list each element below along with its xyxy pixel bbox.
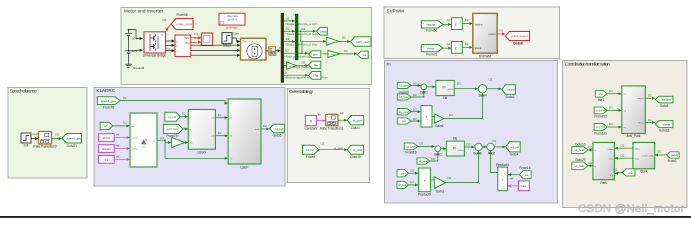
wire Step1 to PMSM Tm [232, 38, 240, 42]
product Product4 [496, 163, 509, 191]
svg-text:the: the [599, 92, 604, 96]
svg-text:D2: D2 [410, 180, 414, 184]
svg-text:D2: D2 [621, 154, 625, 158]
svg-text:Vabc: Vabc [185, 38, 191, 40]
svg-text:D2: D2 [457, 82, 461, 86]
svg-text:D2: D2 [55, 133, 59, 137]
svg-text:D2: D2 [420, 142, 424, 146]
wire fun output junction [157, 136, 166, 141]
svg-text:From35: From35 [177, 13, 188, 17]
from tag we (From16 mirrored) [520, 166, 532, 179]
svg-text:LSEF: LSEF [241, 165, 249, 169]
svg-text:ud_ref: ud_ref [596, 109, 605, 113]
wire LESO z1 to LSEF [215, 113, 227, 118]
svg-text:D1: D1 [500, 29, 504, 33]
svg-text:Rate Transition1: Rate Transition1 [320, 126, 343, 130]
svg-text:Inf: Inf [116, 133, 119, 137]
svg-text:Product6: Product6 [418, 193, 431, 197]
wire battery mid to bridge [129, 49, 143, 52]
svg-text:z: z [455, 45, 457, 50]
svg-text:D2: D2 [263, 124, 267, 128]
svg-text:D2: D2 [286, 37, 290, 41]
svg-text:SVPWM: SVPWM [479, 54, 491, 58]
wire LESO z2 to LSEF [215, 131, 227, 136]
svg-text:uq_ref: uq_ref [596, 125, 605, 129]
svg-text:iq_ref: iq_ref [275, 127, 283, 131]
svg-text:id_real: id_real [398, 183, 407, 187]
goto tag [iabc] [316, 27, 327, 35]
wire Anti_Park Vbeta out [645, 118, 655, 123]
wire Sum3 to uq_ref [494, 146, 505, 148]
svg-text:50 V: 50 V [132, 49, 138, 53]
subsystem SVPWM [473, 13, 497, 58]
wire Flux to Product4 [508, 185, 519, 187]
svg-text:iq_real: iq_real [399, 110, 408, 114]
svg-text:KLADRC: KLADRC [96, 88, 115, 93]
svg-text:Current strategy: Current strategy [289, 89, 314, 94]
svg-text:Vbeta: Vbeta [662, 122, 670, 126]
svg-text:From113: From113 [594, 115, 607, 119]
wire we to Product2 [411, 120, 421, 122]
goto tag Valpha (Goto6) [655, 96, 673, 108]
svg-text:Xiq: Xiq [453, 136, 458, 140]
svg-text:Valpha: Valpha [426, 23, 435, 27]
rate transition RT3 [269, 47, 276, 55]
svg-text:D1: D1 [194, 36, 198, 40]
wire we to Product6 [408, 172, 418, 174]
from tag iq_real (d decoupling) [397, 108, 417, 115]
svg-text:Goto18: Goto18 [350, 155, 361, 159]
ground Ground2 [125, 62, 132, 67]
svg-text:Goto8: Goto8 [513, 41, 522, 45]
svg-text:D2: D2 [413, 117, 417, 121]
rate transition Rate Transition1 [320, 114, 343, 130]
wire rate transition1 to id_give [338, 111, 347, 120]
goto tag iq_give (Goto18) [347, 145, 363, 159]
svg-text:Inf: Inf [510, 177, 513, 181]
unit delay Z1 [452, 18, 463, 30]
IGBT bridge U1 Universal Bridge [143, 32, 167, 58]
svg-text:id_give: id_give [353, 119, 363, 123]
bus row is_b wire [284, 27, 318, 37]
svg-text:Goto10: Goto10 [575, 143, 586, 147]
svg-text:D2: D2 [467, 143, 471, 147]
svg-text:D2: D2 [283, 71, 287, 75]
svg-text:0.8: 0.8 [24, 144, 29, 148]
svg-text:uiPout: uiPout [457, 149, 464, 152]
goto tag pulse_export (Goto8) [505, 31, 529, 45]
sum Sum2 [434, 146, 443, 157]
svg-text:D2: D2 [609, 89, 613, 93]
bus row Te wire [283, 71, 328, 80]
svg-text:D2: D2 [342, 35, 346, 39]
measurement block Three-Phase V-I Measurement [175, 35, 191, 57]
svg-text:uiPout: uiPout [447, 88, 454, 91]
svg-text:D2: D2 [160, 136, 164, 140]
area box: Pi current loop [385, 61, 558, 204]
from tag we (d decoupling) [397, 117, 417, 124]
svg-text:From1: From1 [668, 159, 677, 163]
goto tag speed_give (Goto21) [62, 134, 82, 149]
from tag iq_ref (to LESO) [165, 112, 186, 122]
svg-text:Vbeta: Vbeta [475, 46, 482, 50]
constant wcmin [98, 133, 119, 142]
step source Step1 [222, 33, 232, 48]
svg-text:D2: D2 [218, 113, 222, 117]
wire LSEF output to iq_ref goto [261, 124, 269, 129]
goto tag the [309, 61, 321, 68]
wire Sum2 to PI q [441, 148, 446, 150]
wire Gain6 up into Sum4 [444, 93, 483, 118]
bottom rule line [0, 216, 691, 218]
svg-text:Cont: Cont [233, 32, 239, 36]
wire fun to gain Gain7 [165, 140, 171, 142]
svg-text:Goto5: Goto5 [273, 134, 282, 138]
wire wcmax to fun [114, 148, 129, 150]
wire gain G2 to we [340, 53, 357, 55]
goto tag id_give (Goto1) [347, 116, 363, 130]
wire RT3 to bus selector [276, 50, 281, 52]
svg-text:Clark: Clark [640, 170, 648, 174]
svg-text:D2: D2 [609, 106, 613, 110]
from tag speed_give (From76) [97, 97, 120, 110]
wire the to Park theta [615, 172, 623, 173]
svg-text:iq_ref: iq_ref [307, 148, 315, 152]
wire PI q to Sum5 [464, 143, 474, 147]
svg-text:the: the [628, 171, 633, 175]
wire Product2 to Gain6 [432, 115, 434, 117]
svg-text:From19: From19 [406, 151, 417, 155]
from tag id_real (q decoupling) [397, 180, 414, 189]
svg-text:From56: From56 [426, 29, 437, 33]
goto tag wm [309, 51, 321, 58]
constant Flux [510, 177, 529, 191]
wire ud_ref to Anti_Park [607, 109, 621, 111]
gain G3 on theta row [287, 60, 306, 69]
wire iq_ref to iq_give with label [319, 142, 347, 151]
svg-text:D2: D2 [123, 121, 127, 125]
from tag the (theta to Park mirrored) [614, 168, 636, 176]
svg-text:Valpha: Valpha [475, 22, 483, 26]
goto tag Vbeta (Goto12) [655, 121, 673, 133]
svg-text:0.1: 0.1 [104, 158, 108, 162]
subsystem Clark (mirrored) [633, 142, 655, 173]
svg-text:Inf: Inf [318, 113, 321, 117]
svg-text:Goto12: Goto12 [659, 129, 670, 133]
area box: Motor and Inverter [121, 8, 372, 85]
MATLAB function block fun [130, 113, 157, 167]
svg-text:D2: D2 [182, 112, 186, 116]
svg-text:iq_ref: iq_ref [168, 115, 176, 119]
svg-text:uq_ref: uq_ref [511, 145, 520, 149]
svg-text:wcmin: wcmin [102, 136, 110, 140]
from tag iq_real (q loop) [417, 157, 435, 164]
svg-text:[iabc]: [iabc] [320, 29, 327, 33]
svg-text:D2: D2 [621, 144, 625, 148]
svg-text:Valpha: Valpha [662, 98, 671, 102]
svg-text:D2: D2 [218, 131, 222, 135]
bus row thetam wire [283, 60, 318, 69]
wires bridge to measurement a b c [166, 41, 175, 51]
wire battery top to bridge [129, 30, 143, 39]
step source speed step [21, 133, 31, 148]
goto tag iq_ref (Goto5) [270, 124, 285, 137]
wire gain G1 to wm_real [338, 41, 350, 43]
svg-text:Motor and Inverter: Motor and Inverter [124, 8, 163, 13]
svg-text:From16: From16 [520, 166, 531, 170]
scope Scope [202, 33, 213, 46]
unit delay Z2 [452, 42, 463, 54]
from tag the [595, 89, 613, 102]
svg-text:D2: D2 [344, 49, 348, 53]
svg-text:Valpha: Valpha [637, 98, 644, 100]
powergui block Discrete 1e-06 s [219, 13, 245, 29]
svg-text:Ground2: Ground2 [133, 66, 145, 70]
subsystem Park (mirrored) [593, 142, 615, 184]
svg-text:D2: D2 [301, 60, 305, 64]
svg-text:D2: D2 [431, 157, 435, 161]
svg-text:Park: Park [600, 181, 607, 185]
wire Anti_Park Valpha out [645, 94, 655, 99]
junction battery mid [128, 50, 130, 52]
svg-text:Inf: Inf [116, 154, 119, 158]
wire we From16 to Product4 [508, 174, 520, 176]
svg-text:Goto29: Goto29 [575, 158, 586, 162]
from tag uq_ref (From121) [594, 122, 613, 135]
svg-text:iqref: iqref [255, 128, 260, 131]
wire Clark beta to Park [615, 154, 633, 159]
svg-text:[Te]: [Te] [313, 74, 318, 78]
svg-text:Xid: Xid [443, 96, 448, 100]
wires measurement abc to PMSM [191, 45, 240, 55]
svg-text:Inf: Inf [116, 144, 119, 148]
svg-text:fun: fun [142, 147, 145, 149]
mux output wire to iabc goto [298, 27, 316, 42]
wire 0.1 to fun [114, 158, 129, 160]
svg-text:D2: D2 [465, 42, 469, 46]
wire unit delay Z1 to SVPWM [462, 23, 472, 25]
svg-text:D2: D2 [447, 42, 451, 46]
area box: Coordination transformation [563, 61, 688, 208]
svg-text:Vbeta: Vbeta [427, 46, 435, 50]
junction battery top [128, 29, 130, 31]
gain G2 (pole pairs) [323, 49, 349, 57]
svg-text:iq_real: iq_real [419, 159, 428, 163]
svg-text:Flux: Flux [521, 184, 527, 188]
product Product6 [418, 168, 431, 197]
from tag wb [100, 122, 113, 129]
wire uq_ref to Anti_Park [607, 126, 621, 128]
svg-text:wcmax: wcmax [132, 148, 140, 150]
from tag Valpha (From56) [421, 21, 443, 33]
svg-text:iq_give: iq_give [353, 148, 363, 152]
wire unit delay Z2 to SVPWM [462, 46, 472, 48]
svg-text:id_real: id_real [399, 95, 408, 99]
subsystem LSEF [228, 99, 261, 169]
sum Sum5 [475, 143, 482, 150]
wire PI d to Sum4 [454, 82, 478, 89]
wire Gain7 to LESO [185, 142, 188, 144]
goto tag ud_ref (Goto2) [502, 85, 516, 99]
svg-text:Goto21: Goto21 [67, 144, 78, 148]
svg-text:Product4: Product4 [496, 163, 509, 167]
bus row is_a wire [284, 16, 318, 26]
DC source V1 (battery) [125, 30, 132, 51]
svg-text:[wm_real]: [wm_real] [356, 40, 369, 44]
wire Sum5 to Sum3 [482, 146, 486, 148]
svg-text:D2: D2 [413, 108, 417, 112]
svg-text:Constant: Constant [305, 126, 318, 130]
svg-text:iq_give: iq_give [334, 146, 343, 150]
svg-text:alpha: alpha [608, 149, 614, 151]
wire Sum1 to PI d [427, 86, 436, 88]
wire gate from pulse_export down to bridge [167, 24, 171, 31]
from tag iq_give (From19) [404, 142, 423, 155]
from tag we (q decoupling) [397, 168, 414, 177]
svg-text:Rate Transition2: Rate Transition2 [33, 145, 56, 149]
DC source V2 (battery) [125, 51, 132, 62]
wire iq_ref to LESO [180, 116, 188, 118]
svg-text:1e-06 s.: 1e-06 s. [227, 18, 238, 22]
gain Gain6 [435, 113, 454, 128]
svg-text:id_real: id_real [575, 148, 584, 152]
svg-text:speed_give: speed_give [67, 137, 83, 141]
svg-text:Gain6: Gain6 [435, 124, 444, 128]
area box: Speed reference [8, 88, 87, 179]
wire Park d to id_real [588, 146, 593, 151]
wire Park q to iq_real [588, 161, 593, 166]
wire the to Anti_Park [607, 93, 621, 95]
svg-text:id_give: id_give [399, 84, 409, 88]
svg-text:From72: From72 [426, 53, 437, 57]
wire id_real to Product6 [408, 184, 418, 186]
wire iq_give to Sum2 [418, 145, 435, 147]
svg-text:From76: From76 [103, 105, 114, 109]
svg-text:ud_ref: ud_ref [507, 88, 516, 92]
goto tag Te [309, 72, 321, 80]
wire Clark alpha to Park [615, 144, 633, 149]
from tag ud_ref (From113) [594, 106, 613, 119]
subsystem Anti_Park [622, 86, 646, 138]
wire speed_give to LSEF input [120, 96, 228, 103]
svg-text:pulse_export: pulse_export [511, 34, 528, 38]
svg-text:D2: D2 [658, 149, 662, 153]
wire wcmin to fun [114, 137, 129, 139]
svg-text:D2: D2 [340, 111, 344, 115]
svg-text:speed_give: speed_give [101, 99, 117, 103]
svg-text:D2: D2 [493, 139, 497, 143]
svg-text:D2: D2 [285, 49, 289, 53]
wire Gain1 up into Sum5 [445, 151, 478, 183]
subsystem LESO [188, 110, 215, 155]
wire id_give to Sum1 [411, 84, 421, 86]
wire wb to fun [113, 121, 130, 126]
svg-text:D2: D2 [465, 18, 469, 22]
goto tag id_real (Goto10 mirrored) [572, 143, 588, 154]
svg-text:wb: wb [104, 124, 108, 128]
svg-text:CSDN @Neil_motor: CSDN @Neil_motor [578, 203, 685, 215]
svg-text:<Electromagnetic torque Te (N*: <Electromagnetic torque Te (N*m)> [284, 76, 328, 80]
svg-text:0: 0 [310, 120, 312, 124]
svg-text:Universal Bridge: Universal Bridge [143, 54, 167, 58]
sum Sum3 [487, 139, 497, 155]
svg-text:we: we [401, 171, 405, 175]
svg-text:Vbeta: Vbeta [638, 122, 644, 125]
wire PMSM m output to rate transition [266, 50, 268, 52]
wire constant to rate transition1 [316, 120, 325, 122]
svg-text:D2: D2 [321, 142, 325, 146]
area box: KLADRC [94, 88, 285, 187]
svg-text:<Stator current is_b (A)>: <Stator current is_b (A)> [285, 32, 318, 36]
product Product2 [421, 106, 432, 128]
svg-text:SVPWM: SVPWM [387, 8, 405, 13]
svg-text:wcmax: wcmax [102, 147, 111, 151]
svg-text:D2: D2 [286, 27, 290, 31]
svg-text:Goto2: Goto2 [506, 95, 515, 99]
svg-text:we: we [402, 119, 406, 123]
from tag iabc (From1 mirrored) [658, 149, 680, 163]
gain Gain1 [434, 176, 451, 194]
wire rate transition to speed_give goto [52, 133, 62, 140]
svg-text:D2: D2 [448, 176, 452, 180]
svg-text:Goto4: Goto4 [510, 153, 519, 157]
bus row wm wire [284, 41, 326, 58]
sum Sum4 [478, 78, 492, 98]
area box: SVPWM subsystem region [384, 7, 560, 59]
PI controller d axis [436, 80, 454, 100]
svg-text:Goto6: Goto6 [660, 104, 669, 108]
svg-text:<Stator current is_a (A)>: <Stator current is_a (A)> [285, 22, 318, 26]
wire fun down to LSEF wc input [165, 140, 228, 158]
svg-text:pulses: pulses [488, 32, 496, 36]
wire Product6 to Gain1 [431, 179, 434, 181]
goto tag uq_ref (Goto4) [506, 142, 521, 157]
svg-text:wcmin: wcmin [132, 137, 139, 139]
svg-text:PI: PI [442, 85, 445, 89]
svg-text:the1: the1 [598, 98, 604, 102]
constant wcmax [98, 144, 119, 153]
wire iq_real to Product2 [411, 111, 421, 113]
svg-text:alpha: alpha [635, 148, 641, 150]
area box: Current strategy [287, 88, 369, 182]
wire Sum4 to ud_ref [487, 88, 502, 90]
PMSM machine block [241, 38, 267, 60]
from tag id_real [397, 93, 417, 100]
wire Vbeta to unit delay [443, 47, 451, 49]
svg-text:D2: D2 [648, 118, 652, 122]
svg-text:Gain1: Gain1 [436, 189, 445, 193]
wire wm_real to LESO [183, 128, 188, 130]
bus row is_c wire [284, 37, 318, 47]
svg-text:Pi: Pi [387, 62, 391, 67]
svg-text:D2: D2 [589, 161, 593, 165]
svg-text:z: z [455, 22, 457, 27]
sum Sum1 [420, 84, 429, 95]
svg-text:D2: D2 [609, 122, 613, 126]
wire SVPWM pulses to goto [497, 33, 505, 35]
svg-text:D2: D2 [123, 96, 127, 100]
svg-text:iq_real: iq_real [575, 164, 584, 168]
bus selector bar [281, 13, 284, 83]
svg-text:currents_s (A): currents_s (A) [641, 155, 653, 158]
from tag Vbeta (From72) [421, 45, 443, 57]
svg-text:D2: D2 [614, 168, 618, 172]
svg-text:wm: wm [313, 52, 318, 56]
svg-text:we: we [362, 53, 366, 57]
svg-text:D2: D2 [648, 94, 652, 98]
svg-text:LESO: LESO [198, 151, 207, 155]
constant 0.1 [98, 154, 119, 163]
